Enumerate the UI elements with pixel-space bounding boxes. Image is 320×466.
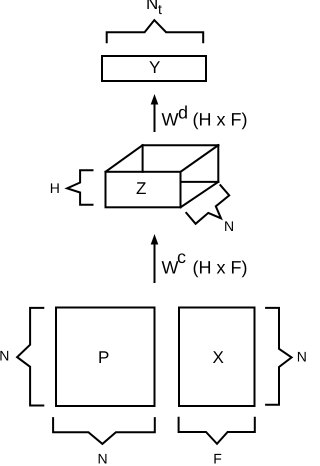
brace F bottom X [179, 418, 255, 444]
Z top-left edge [106, 145, 143, 172]
brace N depth [186, 185, 229, 224]
svg-text:N: N [98, 451, 108, 466]
svg-text:N: N [224, 218, 234, 234]
matrix X [179, 308, 255, 407]
brace N left [17, 308, 43, 406]
svg-text:P: P [98, 348, 109, 367]
Z top-right edge [181, 145, 219, 172]
svg-text:N: N [0, 348, 9, 364]
svg-text:Y: Y [149, 58, 160, 77]
brace N right [266, 308, 292, 405]
svg-text:X: X [213, 348, 224, 367]
brace top Nt [107, 20, 204, 42]
Z bottom-right edge [181, 182, 219, 207]
svg-text:t: t [158, 1, 162, 17]
svg-text:W: W [162, 258, 179, 278]
svg-text:Z: Z [136, 179, 146, 198]
svg-text:H: H [50, 180, 60, 196]
Z interior back-left edge [142, 145, 144, 172]
matrix Z front face [106, 172, 181, 208]
Z interior bottom-back edge [181, 181, 219, 183]
matrix Y [102, 56, 206, 81]
svg-text:c: c [177, 247, 186, 267]
svg-text:d: d [178, 103, 188, 123]
Z back top edge [143, 144, 219, 146]
Z back-right edge [217, 145, 219, 182]
svg-text:(H x F): (H x F) [193, 258, 248, 278]
svg-text:N: N [146, 0, 158, 13]
arrow Wd [154, 103, 156, 131]
arrow Wc [154, 242, 156, 282]
svg-text:F: F [213, 451, 222, 466]
brace H [67, 170, 92, 205]
matrix P [56, 308, 155, 407]
arrowhead Wd [151, 94, 159, 105]
svg-text:(H x F): (H x F) [193, 110, 248, 130]
brace N bottom P [53, 418, 155, 444]
arrowhead Wc [151, 234, 159, 245]
svg-text:W: W [162, 110, 179, 130]
svg-text:N: N [297, 349, 307, 365]
